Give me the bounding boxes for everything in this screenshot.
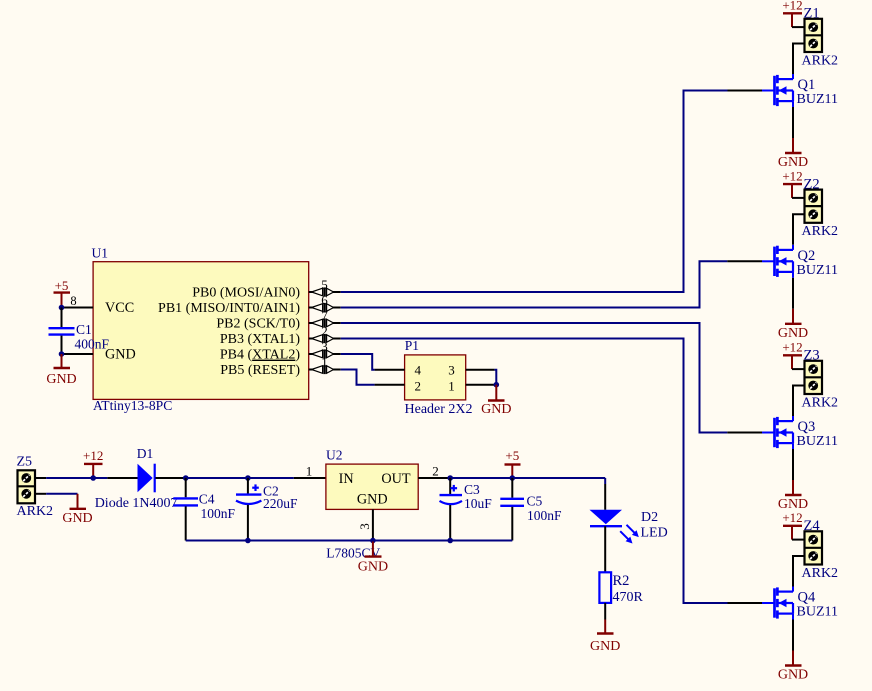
label Q1 value BUZ11: [797, 92, 838, 107]
wire C5 lower: [511, 507, 513, 541]
svg-text:BUZ11: BUZ11: [797, 92, 838, 107]
node junction C2 bottom: [245, 538, 251, 544]
label Z1 value ARK2: [802, 53, 839, 68]
pin 8 (VCC) of U1: [62, 307, 94, 309]
pin name GND: [105, 347, 136, 363]
svg-text:Header 2X2: Header 2X2: [405, 402, 473, 417]
ground symbol below Q1: [778, 138, 808, 170]
svg-text:GND: GND: [481, 402, 511, 417]
pin 3 of U2: [372, 509, 374, 540]
pin 4 of P1: [375, 369, 405, 371]
label Z1 designator: [804, 6, 820, 22]
svg-text:+12: +12: [83, 448, 103, 463]
pin name OUT: [381, 471, 410, 487]
svg-text:GND: GND: [357, 492, 388, 508]
wire Q2 source to ground: [792, 278, 794, 309]
svg-text:PB0 (MOSI/AIN0): PB0 (MOSI/AIN0): [192, 286, 300, 301]
wire into U2 pin1: [294, 477, 326, 479]
pin name VCC: [105, 300, 134, 316]
pin name PB4 (XTAL2): [220, 348, 301, 363]
transistor Q4 BUZ11: [762, 587, 793, 620]
wire D2 cathode to R2: [604, 526, 606, 572]
svg-text:+12: +12: [782, 510, 802, 525]
svg-text:3: 3: [321, 339, 328, 354]
pin number 6: [321, 293, 328, 308]
svg-text:VCC: VCC: [105, 300, 134, 316]
svg-text:BUZ11: BUZ11: [797, 434, 838, 449]
label Q4 designator: [798, 590, 816, 606]
svg-text:6: 6: [321, 293, 328, 308]
ground symbol below Z5: [62, 494, 92, 526]
label R2 designator: [613, 573, 630, 589]
label R2 value 470R: [613, 590, 644, 605]
label Z4 designator: [804, 518, 821, 534]
wire Z5 pin2 to ground: [46, 493, 77, 495]
resistor R2: [599, 572, 611, 603]
svg-text:BUZ11: BUZ11: [797, 605, 838, 620]
power +12 symbol at input: [83, 448, 103, 478]
svg-text:Diode 1N4007: Diode 1N4007: [95, 496, 178, 511]
svg-text:ARK2: ARK2: [17, 504, 54, 519]
label Q3 designator: [798, 419, 816, 435]
svg-text:ATtiny13-8PC: ATtiny13-8PC: [93, 398, 172, 413]
ground symbol below C1: [46, 354, 76, 387]
label U2 designator: [326, 448, 343, 463]
label U2 value L7805CV: [326, 546, 380, 561]
pin 2 of P1: [375, 384, 405, 386]
label C5 designator: [527, 494, 543, 509]
label Z3 designator: [804, 348, 820, 364]
power +12 symbol at Z1: [782, 0, 802, 27]
svg-text:OUT: OUT: [381, 471, 410, 487]
svg-text:+12: +12: [782, 168, 802, 183]
wire C3 lower: [449, 505, 451, 541]
pin number 2: [321, 324, 328, 339]
node junction U2 output: [447, 475, 453, 481]
svg-text:P1: P1: [405, 338, 419, 353]
label Q2 value BUZ11: [797, 263, 838, 278]
power +5 symbol at C5: [505, 448, 521, 478]
svg-text:2: 2: [432, 464, 439, 479]
svg-text:Q1: Q1: [798, 77, 816, 93]
wire net PB0 to Q1 gate: [341, 91, 762, 293]
svg-text:8: 8: [70, 294, 76, 308]
capacitor C4: [173, 498, 198, 505]
wire Q1 source to ground: [792, 107, 794, 138]
pin 3 (PB4) of U1: [309, 349, 341, 358]
pin 2 of Z5: [35, 493, 46, 495]
svg-text:4: 4: [415, 363, 422, 378]
pin number 4: [415, 363, 422, 378]
svg-text:7: 7: [321, 308, 328, 323]
wire +5 rail corner down to D2: [604, 478, 606, 510]
svg-text:Q2: Q2: [798, 248, 816, 264]
svg-text:U2: U2: [326, 448, 343, 463]
pin number 5: [321, 277, 328, 292]
svg-text:PB4 (XTAL2): PB4 (XTAL2): [220, 348, 301, 363]
label D2 value LED: [641, 526, 668, 541]
svg-text:220uF: 220uF: [263, 496, 298, 511]
label D2 designator: [641, 510, 658, 525]
wire net PB4 to P1 pin 4: [341, 354, 375, 370]
svg-text:GND: GND: [358, 559, 388, 574]
label Z2 value ARK2: [802, 224, 839, 239]
svg-text:D1: D1: [137, 446, 154, 461]
wire D1 cathode to C4: [155, 477, 185, 479]
label C1 value 400nF: [75, 336, 110, 351]
connector Z1 body: [805, 19, 823, 52]
node GND junction at C1 bottom: [59, 351, 65, 357]
node junction at C2 top: [245, 475, 251, 481]
connector Z5 body: [18, 470, 36, 503]
wire Q3 source to ground: [792, 449, 794, 480]
svg-text:BUZ11: BUZ11: [797, 263, 838, 278]
power +5 symbol at C1: [54, 278, 71, 307]
transistor Q1 BUZ11: [762, 74, 793, 107]
svg-text:IN: IN: [339, 471, 354, 487]
pin number 1: [448, 378, 455, 393]
node junction at P1 pin1: [494, 382, 500, 388]
pin number 3 of U2: [357, 523, 372, 530]
ground symbol below Q2: [778, 309, 808, 341]
pin number 1: [321, 355, 328, 370]
label Z3 value ARK2: [802, 395, 839, 410]
wire +12 to Z2 pin1: [792, 197, 805, 199]
svg-text:GND: GND: [46, 372, 76, 387]
wire +12 node to D1 anode: [107, 477, 137, 479]
svg-text:C1: C1: [76, 322, 92, 337]
pin 6 (PB1) of U1: [309, 303, 341, 312]
svg-text:C4: C4: [199, 492, 215, 507]
pin number 7: [321, 308, 328, 323]
wire net PB2 to Q3 gate: [341, 323, 762, 433]
pin 1 of Z5: [35, 477, 46, 479]
wire C1 top: [61, 308, 63, 328]
pin number 3: [448, 363, 455, 378]
svg-text:ARK2: ARK2: [802, 566, 839, 581]
label Z5 designator: [17, 454, 33, 469]
power +12 symbol at Z4: [782, 510, 802, 540]
wire Z5 pin1 to +12 node: [46, 477, 107, 479]
label Z2 designator: [804, 176, 820, 192]
wire C2 upper: [247, 478, 249, 494]
pin number 3: [321, 339, 328, 354]
svg-text:PB2 (SCK/T0): PB2 (SCK/T0): [216, 317, 300, 332]
svg-text:GND: GND: [105, 347, 136, 363]
ground symbol below P1: [481, 385, 511, 418]
svg-text:100nF: 100nF: [201, 506, 236, 521]
svg-text:100nF: 100nF: [527, 508, 562, 523]
connector Z4 body: [805, 531, 823, 564]
wire R2 to ground: [604, 603, 606, 620]
connector Z2 body: [805, 190, 823, 223]
transistor Q2 BUZ11: [762, 245, 793, 278]
node VCC junction at C1 top: [59, 305, 65, 311]
capacitor C2 polarized: [236, 484, 261, 504]
label Z5 value ARK2: [17, 504, 54, 519]
label C1 designator: [76, 322, 92, 337]
svg-text:+5: +5: [55, 278, 69, 293]
pin name PB2 (SCK/T0): [216, 317, 300, 332]
svg-text:+5: +5: [505, 448, 519, 463]
svg-text:C3: C3: [464, 482, 480, 497]
svg-text:5: 5: [321, 277, 328, 292]
label Q1 designator: [798, 77, 816, 93]
capacitor C1: [49, 328, 75, 334]
capacitor C3 polarized: [440, 485, 463, 504]
node junction C3 bottom: [447, 538, 453, 544]
label Q4 value BUZ11: [797, 605, 838, 620]
op: IC U1 ATtiny13 body: [93, 262, 309, 400]
ground symbol below Q4: [778, 651, 808, 683]
label Z4 value ARK2: [802, 566, 839, 581]
svg-text:D2: D2: [641, 510, 658, 525]
wire ground rail: [186, 540, 513, 542]
svg-text:GND: GND: [62, 511, 92, 526]
label C2 value 220uF: [263, 496, 298, 511]
pin number 2 of U2: [432, 464, 439, 479]
power +12 symbol at Z2: [782, 168, 802, 198]
pin name PB1 (MISO/INT0/AIN1): [158, 301, 300, 316]
label P1 designator: [405, 338, 419, 353]
pin 7 (PB2) of U1: [309, 318, 341, 327]
regulator U2 body: [326, 464, 418, 509]
wire net PB5 to P1 pin 2: [341, 370, 375, 385]
wire net PB3 to Q4 gate: [341, 339, 762, 604]
wire U2 output to +5 rail: [448, 477, 605, 479]
wire C2 to U2 input: [248, 477, 294, 479]
label C5 value 100nF: [527, 508, 562, 523]
ground symbol below R2: [590, 620, 620, 654]
svg-text:LED: LED: [641, 526, 668, 541]
pin number 2: [415, 378, 422, 393]
svg-text:3: 3: [448, 363, 455, 378]
wire net PB1 to Q2 gate: [341, 261, 762, 307]
svg-text:2: 2: [321, 324, 328, 339]
wire C4 upper: [185, 478, 187, 497]
label C3 value 10uF: [464, 496, 492, 511]
wire C4 to C2 top: [186, 477, 248, 479]
label C3 designator: [464, 482, 480, 497]
wire +12 to Z1 pin1: [792, 26, 805, 28]
svg-text:470R: 470R: [613, 590, 644, 605]
capacitor C5: [500, 499, 524, 506]
wire Z2 pin2 to Q2 drain: [793, 214, 805, 245]
diode D1: [138, 464, 155, 493]
ground symbol below Q3: [778, 480, 808, 512]
label C4 value 100nF: [201, 506, 236, 521]
svg-text:1: 1: [448, 378, 455, 393]
label C4 designator: [199, 492, 215, 507]
node +12 junction: [90, 475, 96, 481]
svg-text:1: 1: [321, 355, 328, 370]
wire C2 lower: [247, 505, 249, 541]
label C2 designator: [263, 484, 279, 499]
pin 2 of U2: [418, 477, 448, 479]
wire Q4 source to ground: [792, 620, 794, 651]
pin name PB3 (XTAL1): [220, 332, 300, 347]
svg-text:GND: GND: [778, 668, 808, 683]
svg-text:3: 3: [357, 523, 372, 530]
label Q2 designator: [798, 248, 816, 264]
label U1 designator: [92, 246, 109, 261]
ground symbol below U2: [358, 541, 388, 575]
pin 5 (PB0) of U1: [309, 287, 341, 296]
pin number 1 of U2: [306, 464, 313, 479]
wire Z4 pin2 to Q4 drain: [793, 556, 805, 587]
label D1 designator: [137, 446, 154, 461]
label U1 value ATtiny13-8PC: [93, 398, 172, 413]
svg-text:ARK2: ARK2: [802, 224, 839, 239]
svg-text:Z5: Z5: [17, 454, 33, 469]
wire P1 pin3 to pin1: [494, 370, 496, 385]
pin 2 (PB3) of U1: [309, 334, 341, 343]
pin name PB5 (RESET): [220, 363, 300, 378]
label P1 value Header 2X2: [405, 402, 473, 417]
svg-text:1: 1: [306, 464, 313, 479]
svg-text:Q3: Q3: [798, 419, 816, 435]
svg-text:+12: +12: [782, 340, 802, 355]
svg-text:R2: R2: [613, 573, 630, 589]
wire C1 bottom: [61, 336, 63, 354]
svg-text:ARK2: ARK2: [802, 395, 839, 410]
wire +12 to Z3 pin1: [792, 368, 805, 370]
node junction +5 at C5: [510, 475, 516, 481]
pin name PB0 (MOSI/AIN0): [192, 286, 300, 301]
transistor Q3 BUZ11: [762, 416, 793, 449]
wire C3 upper: [449, 478, 451, 494]
wire +12 to Z4 pin1: [792, 539, 805, 541]
svg-text:2: 2: [415, 378, 422, 393]
svg-text:C5: C5: [527, 494, 543, 509]
pin 1 of P1: [466, 384, 495, 386]
svg-text:PB3 (XTAL1): PB3 (XTAL1): [220, 332, 300, 347]
connector Z3 body: [805, 361, 823, 394]
pin GND of U1: [62, 353, 94, 355]
svg-text:U1: U1: [92, 246, 109, 261]
svg-text:+12: +12: [782, 0, 802, 13]
pin name IN: [339, 471, 354, 487]
LED D2: [590, 510, 623, 526]
node junction U2 GND on rail: [370, 538, 376, 544]
svg-text:10uF: 10uF: [464, 496, 492, 511]
node junction at C4 top: [183, 475, 189, 481]
pin 1 (PB5) of U1: [309, 365, 341, 374]
wire Z1 pin2 to Q1 drain: [793, 44, 805, 75]
label Q3 value BUZ11: [797, 434, 838, 449]
svg-text:Q4: Q4: [798, 590, 816, 606]
svg-text:ARK2: ARK2: [802, 53, 839, 68]
pin name GND: [357, 492, 388, 508]
wire C4 lower: [185, 506, 187, 540]
pin 3 of P1: [466, 369, 495, 371]
pin number 8: [70, 294, 76, 308]
svg-text:PB1 (MISO/INT0/AIN1): PB1 (MISO/INT0/AIN1): [158, 301, 300, 316]
svg-text:PB5 (RESET): PB5 (RESET): [220, 363, 300, 378]
connector P1 header body: [405, 355, 466, 400]
wire C5 upper: [511, 478, 513, 498]
power +12 symbol at Z3: [782, 340, 802, 370]
svg-text:400nF: 400nF: [75, 336, 110, 351]
label D1 value Diode 1N4007: [95, 496, 178, 511]
svg-text:GND: GND: [590, 639, 620, 654]
wire Z3 pin2 to Q3 drain: [793, 386, 805, 417]
LED D2 emission arrows: [620, 525, 639, 544]
